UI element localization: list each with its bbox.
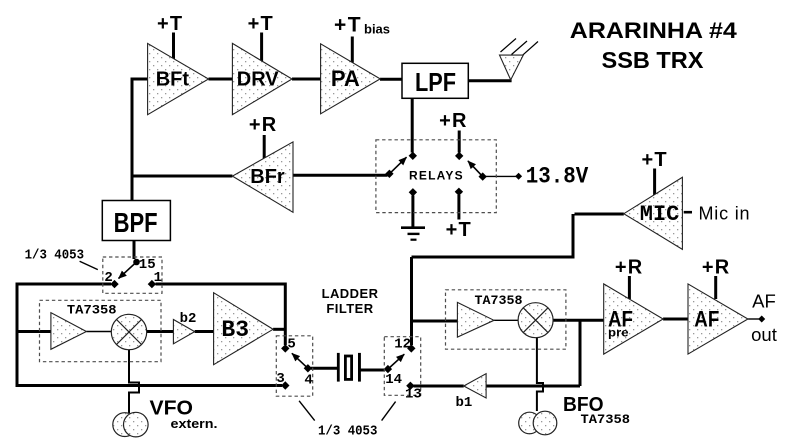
svg-text:PA: PA — [331, 66, 360, 91]
svg-text:b1: b1 — [456, 395, 473, 411]
svg-text:5: 5 — [287, 337, 295, 353]
svg-text:BPF: BPF — [114, 207, 158, 238]
svg-text:pre: pre — [608, 326, 629, 340]
svg-text:Mic in: Mic in — [699, 204, 751, 224]
svg-text:+R: +R — [702, 257, 731, 279]
svg-text:out: out — [751, 324, 777, 345]
svg-text:+T: +T — [157, 13, 183, 35]
svg-text:+T: +T — [446, 219, 472, 241]
svg-text:SSB TRX: SSB TRX — [602, 47, 705, 73]
svg-text:extern.: extern. — [171, 416, 218, 431]
svg-text:ARARINHA #4: ARARINHA #4 — [570, 18, 738, 43]
svg-text:RELAYS: RELAYS — [409, 169, 464, 183]
svg-text:4: 4 — [304, 373, 312, 389]
svg-text:BFt: BFt — [156, 68, 190, 90]
svg-text:+T: +T — [248, 13, 274, 35]
svg-text:TA7358: TA7358 — [581, 412, 631, 427]
svg-text:+T: +T — [641, 149, 667, 171]
svg-text:2: 2 — [104, 270, 112, 286]
svg-text:1: 1 — [154, 270, 162, 286]
svg-text:LPF: LPF — [415, 67, 456, 97]
svg-text:TA7358: TA7358 — [475, 293, 523, 308]
svg-text:13: 13 — [405, 387, 422, 403]
svg-text:AF: AF — [694, 306, 719, 331]
svg-text:1/3 4053: 1/3 4053 — [318, 424, 377, 440]
svg-text:BFr: BFr — [250, 166, 285, 188]
svg-text:13.8V: 13.8V — [526, 164, 589, 190]
svg-text:14: 14 — [385, 372, 402, 388]
svg-text:1/3 4053: 1/3 4053 — [25, 248, 84, 264]
svg-text:+R: +R — [615, 257, 644, 279]
svg-text:+R: +R — [249, 114, 278, 136]
svg-text:AF: AF — [752, 290, 776, 311]
svg-text:+R: +R — [439, 110, 468, 132]
svg-text:+T: +T — [334, 14, 362, 37]
svg-text:MIC: MIC — [640, 202, 680, 227]
svg-text:3: 3 — [276, 371, 284, 387]
svg-text:12: 12 — [394, 337, 411, 353]
svg-text:b2: b2 — [180, 311, 197, 327]
svg-text:LADDER: LADDER — [322, 286, 379, 301]
svg-text:DRV: DRV — [237, 68, 280, 90]
svg-text:bias: bias — [364, 22, 390, 37]
svg-text:FILTER: FILTER — [326, 301, 373, 316]
svg-text:B3: B3 — [221, 317, 249, 343]
svg-text:TA7358: TA7358 — [67, 303, 117, 318]
